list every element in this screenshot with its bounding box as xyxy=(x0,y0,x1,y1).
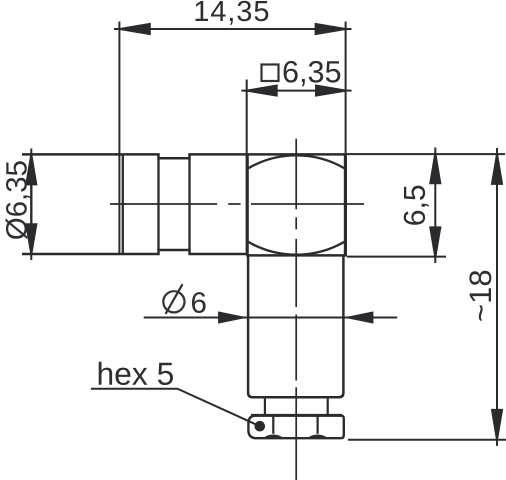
hex right thick edge xyxy=(344,155,347,255)
diameter symbol for 6 xyxy=(163,284,184,314)
horizontal centerline xyxy=(110,203,364,205)
dimension square 6,35 line xyxy=(242,90,352,92)
hex bottom line xyxy=(246,254,347,257)
dimension diam 6,35 top arrow xyxy=(25,148,37,185)
groove right edge xyxy=(188,158,190,250)
dimension 6,5 top arrow xyxy=(429,147,441,184)
body step line xyxy=(122,154,124,254)
nut facet bottom arcs xyxy=(263,435,329,439)
hex 5 label text xyxy=(99,362,173,385)
body left end face xyxy=(30,154,32,255)
nut facet line right xyxy=(317,417,319,434)
dimension square 6,35 left arrow xyxy=(241,84,278,96)
nut facet line left xyxy=(272,417,274,434)
nut bottom extension line to the right xyxy=(348,439,506,441)
dimension diam 6 right arrow xyxy=(343,311,373,323)
hex bottom extension line to the right xyxy=(347,256,446,258)
dimension diam 6,35 text (rotated) xyxy=(6,161,31,239)
body bottom outline with groove xyxy=(22,250,248,254)
dimension square 6,35 right arrow xyxy=(315,84,352,96)
hex bottom chamfer arc xyxy=(248,242,344,255)
dimension ~18 text (rotated) xyxy=(469,271,491,321)
dimension diam 6 text xyxy=(192,292,206,313)
neck left edge xyxy=(264,399,266,415)
hex top chamfer arc xyxy=(248,155,344,168)
dimension diam 6,35 bottom arrow xyxy=(25,223,37,260)
dimension 6,35 text xyxy=(284,61,341,86)
dimension ~18 bottom arrow xyxy=(491,409,503,446)
hex left thick edge xyxy=(246,155,249,255)
neck right edge xyxy=(327,399,329,415)
nut outline xyxy=(248,415,343,438)
body top extension line to the right xyxy=(347,153,506,155)
square symbol xyxy=(262,65,279,82)
dimension diam 6 line left xyxy=(144,317,398,319)
hex 5 reference dot xyxy=(254,421,265,432)
dimension 14,35 right arrow xyxy=(315,23,352,35)
dimension 14,35 extension line left xyxy=(118,22,120,254)
dimension 6,5 bottom arrow xyxy=(429,226,441,263)
dimension diam 6,35 line (left) xyxy=(30,149,32,261)
dimension 14,35 line xyxy=(114,28,352,30)
dimension ~18 line xyxy=(496,148,498,446)
dimension 14,35 text xyxy=(196,1,269,25)
dimension 6,5 line xyxy=(434,148,436,264)
vertical centerline xyxy=(295,139,297,480)
dimension diam 6 left arrow xyxy=(218,311,248,323)
vertical shaft outline xyxy=(248,256,343,397)
dimension 14,35 left arrow xyxy=(114,23,151,35)
hex 5 leader line xyxy=(91,389,260,427)
groove left edge xyxy=(157,158,159,250)
dimension square 6,35 extension line left xyxy=(246,80,248,158)
dimension ~18 top arrow xyxy=(491,148,503,185)
dimension 6,5 text (rotated) xyxy=(404,186,429,225)
nut top thick line xyxy=(251,414,342,417)
dimension 14,35 / 6,35 extension line right xyxy=(345,22,347,155)
body top outline with groove xyxy=(22,154,347,158)
